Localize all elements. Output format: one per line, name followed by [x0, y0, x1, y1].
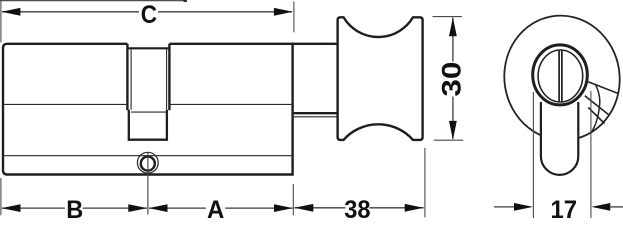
svg-text:38: 38 — [344, 196, 370, 218]
svg-text:C: C — [141, 1, 157, 29]
svg-text:30: 30 — [437, 62, 467, 97]
svg-text:17: 17 — [551, 196, 578, 218]
svg-text:A: A — [207, 196, 224, 218]
svg-text:B: B — [66, 196, 83, 218]
